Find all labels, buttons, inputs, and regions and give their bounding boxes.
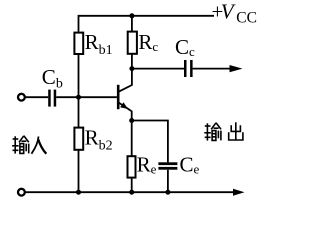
svg-text:CC: CC (236, 9, 257, 26)
svg-text:V: V (221, 0, 236, 24)
